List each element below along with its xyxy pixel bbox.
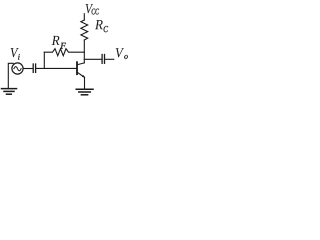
source Vi circle xyxy=(12,63,23,74)
transistor emitter lead xyxy=(78,73,85,78)
wire capacitor to base xyxy=(36,67,76,69)
ground (emitter) xyxy=(76,88,93,90)
capacitor C2 xyxy=(101,55,103,64)
label RF xyxy=(52,36,66,49)
emitter arrowhead xyxy=(82,75,85,78)
sine symbol xyxy=(14,67,21,71)
capacitor C1 xyxy=(32,64,34,72)
label RC xyxy=(95,20,108,32)
wire collector to capacitor xyxy=(84,58,101,60)
wire emitter to ground xyxy=(84,77,86,89)
transistor collector lead xyxy=(78,63,85,65)
label VCC xyxy=(86,4,99,14)
wire capacitor to Vo xyxy=(105,58,114,60)
label Vi xyxy=(11,48,20,60)
resistor RF xyxy=(44,49,84,56)
wire VCC lead xyxy=(83,14,85,20)
wire collector line xyxy=(83,40,85,63)
wire source to ground xyxy=(8,63,13,88)
label Vo xyxy=(116,48,128,59)
wire RF left leg xyxy=(43,52,45,68)
ground (source) xyxy=(2,88,17,90)
resistor RC xyxy=(81,20,88,40)
transistor Q1 base bar xyxy=(76,62,78,74)
wire source to capacitor xyxy=(23,68,33,70)
